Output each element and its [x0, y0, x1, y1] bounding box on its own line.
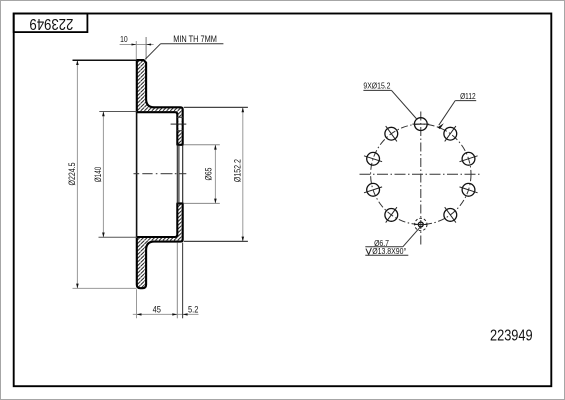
section axis centreline: [134, 173, 187, 175]
bolt holes 9 x Ø15.2: [367, 118, 475, 222]
dimension Ø224.5 (outer diameter): [67, 60, 137, 288]
dimension Ø140 (hat inner diameter): [93, 112, 137, 238]
dimensions 45 and 5.2 (hat depth and flange thickness): [133, 243, 199, 319]
bolt hole centre tick: [171, 123, 187, 125]
face view centrelines: [360, 112, 481, 246]
svg-text:Ø140: Ø140: [93, 167, 103, 182]
svg-text:Ø13.8X90°: Ø13.8X90°: [372, 246, 406, 256]
friction ring and hat section, lower half: [137, 203, 183, 288]
note MIN TH 7MM with leader: [145, 35, 223, 60]
svg-text:10: 10: [120, 35, 128, 45]
svg-text:5.2: 5.2: [188, 305, 199, 315]
svg-text:9XØ15.2: 9XØ15.2: [363, 81, 390, 91]
pilot hole Ø6.7 with Ø13.8 countersink: [414, 218, 427, 230]
svg-text:45: 45: [153, 305, 162, 315]
bolt hole radial ticks: [364, 124, 478, 223]
svg-text:Ø224.5: Ø224.5: [67, 162, 77, 185]
centre bore Ø65 visible edges: [177, 145, 182, 204]
label 9XØ15.2 with leader: [363, 81, 416, 119]
svg-text:Ø152.2: Ø152.2: [232, 159, 242, 182]
svg-text:223949: 223949: [490, 327, 533, 345]
svg-text:Ø112: Ø112: [460, 91, 475, 101]
svg-text:MIN TH 7MM: MIN TH 7MM: [173, 35, 217, 45]
friction ring and hat section, upper half: [137, 60, 183, 145]
bolt hole bore through mounting flange: [177, 117, 183, 130]
label Ø112 with leader arrow: [438, 91, 477, 129]
dimension 10 (disc thickness): [120, 35, 154, 60]
hat inner edge: [136, 112, 138, 237]
dimension Ø152.2 (hat outer diameter): [184, 107, 248, 241]
title box: [14, 14, 88, 33]
label Ø6.7 / countersink Ø13.8X90° with leader: [365, 227, 420, 256]
svg-text:223949: 223949: [29, 15, 73, 32]
bolt pitch circle Ø112: [371, 124, 471, 224]
svg-text:Ø65: Ø65: [204, 167, 214, 180]
dimension Ø65 (centre bore): [184, 145, 220, 204]
